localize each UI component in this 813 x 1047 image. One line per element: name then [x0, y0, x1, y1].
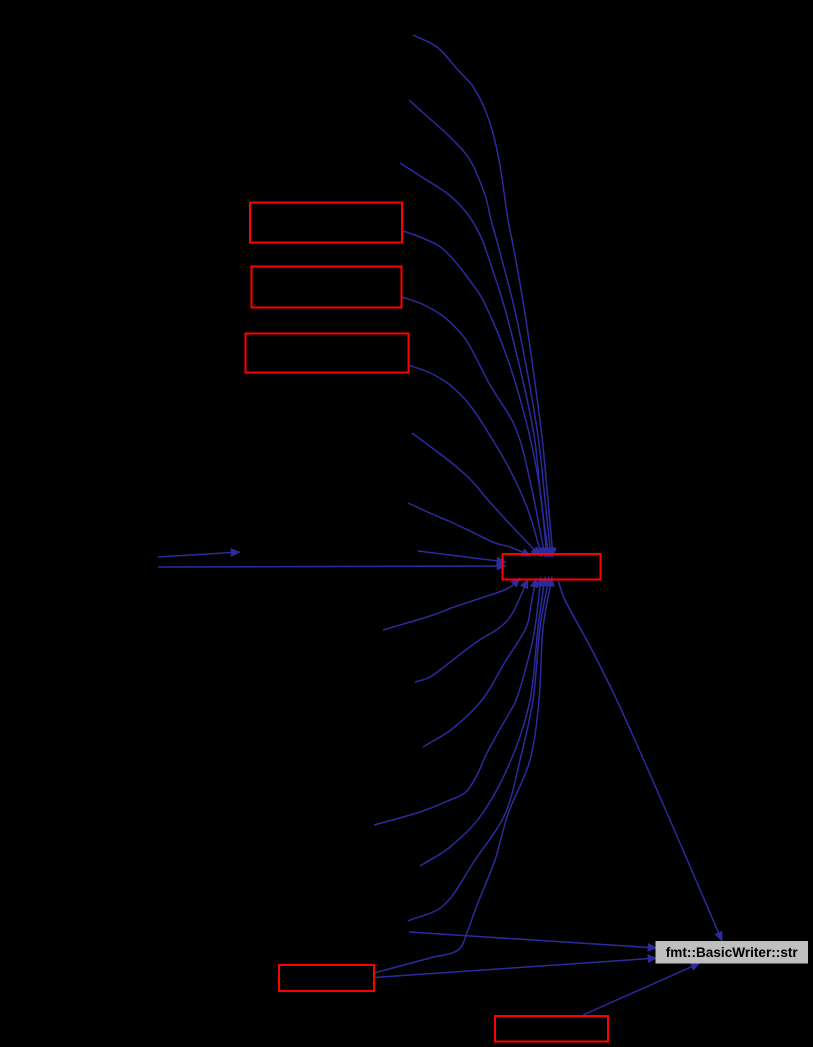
edge far-left caller to mid caller: [158, 552, 240, 557]
edge caller n12 to hub: [383, 578, 520, 630]
red truncated node box5: [495, 1016, 608, 1042]
edge far-left caller to hub: [158, 566, 506, 567]
edge caller n14 to hub: [423, 578, 536, 747]
edge caller n8 to hub: [408, 503, 531, 556]
edge red box2 to hub: [402, 297, 545, 557]
edge caller n16 to hub: [420, 577, 545, 866]
edge red box4 to hub: [374, 577, 552, 973]
edge caller n3 to hub: [400, 163, 549, 557]
edge caller n17 to str node: [409, 932, 657, 948]
red truncated node box4: [279, 965, 374, 991]
red truncated node box2: [252, 267, 402, 308]
red truncated node box1: [250, 203, 402, 243]
red truncated node box3: [246, 334, 409, 373]
edge red box3 to hub: [408, 365, 542, 557]
red truncated node hub: [503, 554, 601, 580]
edge caller n17 to hub: [408, 577, 549, 921]
edge caller n1 to hub: [413, 35, 553, 557]
edge hub to str node: [558, 580, 722, 941]
edge red box1 to hub: [403, 231, 547, 557]
edge caller n2 to hub: [409, 100, 551, 557]
edge red box4 to str node: [374, 958, 657, 978]
svg-text:fmt::BasicWriter::str: fmt::BasicWriter::str: [666, 945, 799, 960]
edge caller n13 to hub: [415, 579, 528, 682]
edge caller n15 to hub: [374, 577, 541, 825]
edge caller n7 to hub: [412, 433, 540, 556]
edge mid caller to hub: [418, 551, 506, 562]
edge red box5 to str node: [583, 963, 700, 1015]
node fmt::BasicWriter::str: [656, 941, 809, 964]
